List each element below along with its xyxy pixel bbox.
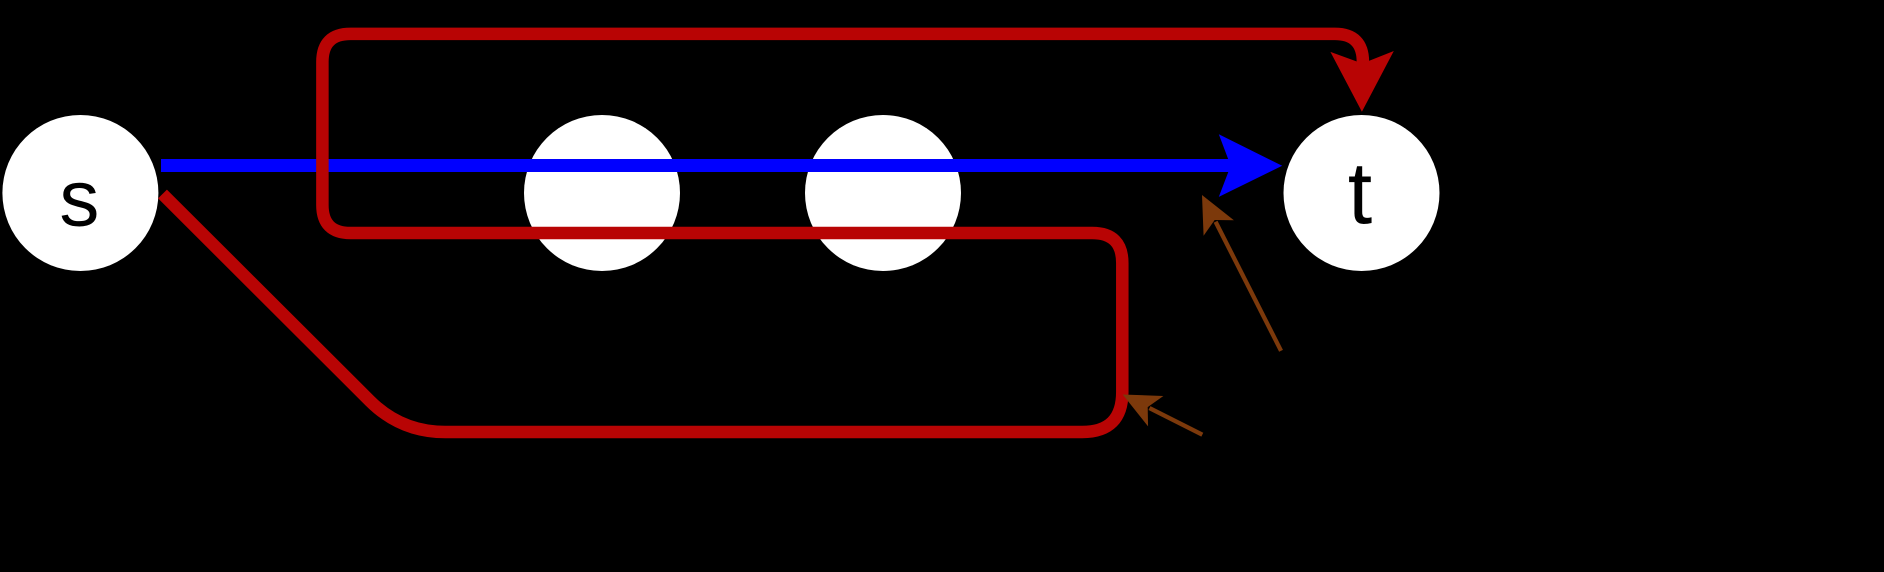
svg-text:s: s [59, 154, 99, 243]
red arrowhead into t [1330, 51, 1393, 112]
node s [2, 115, 158, 271]
node t [1284, 115, 1440, 271]
blue arrowhead into t [1219, 134, 1282, 197]
node v2 [805, 115, 961, 271]
node v1 [524, 115, 680, 271]
red augmenting path s -> down -> right -> up -> left -> up -> right -> t [163, 34, 1363, 432]
blue path s -> t (shaft) [161, 159, 1236, 172]
brown annotation arrow 2 (points at red path corner) [1115, 379, 1210, 450]
brown annotation arrow 1 (points at blue arrowhead) [1187, 187, 1296, 358]
svg-text:t: t [1348, 144, 1372, 243]
